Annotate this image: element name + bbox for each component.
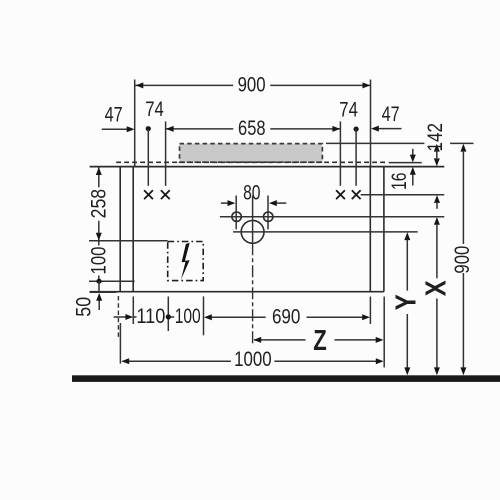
countertop left edge projection (dashed) (117, 296, 119, 338)
extension line box bottom (left) (89, 280, 135, 282)
dim 47 left line (102, 128, 127, 130)
dim Z arrow left (253, 337, 261, 343)
svg-text:900: 900 (238, 74, 266, 97)
dim 47 right line (374, 128, 402, 130)
left leg inner projection (132, 297, 134, 325)
svg-text:658: 658 (238, 117, 266, 140)
svg-text:74: 74 (145, 98, 164, 121)
svg-text:690: 690 (272, 306, 301, 329)
left leg outer edge (119, 167, 121, 292)
extension line console bottom (left) (90, 291, 117, 293)
drain axis line (233, 231, 418, 233)
dim 80 arrow left (228, 200, 236, 206)
console bottom edge (90, 291, 384, 293)
dim 258 arrow bottom (96, 233, 102, 241)
svg-text:16: 16 (388, 173, 411, 191)
dim 50 arrow (96, 293, 102, 301)
dim 74 right dot (354, 127, 359, 132)
left leg inner edge (132, 167, 134, 292)
svg-text:74: 74 (339, 99, 358, 122)
dim 142 arrows (434, 144, 440, 152)
right leg inner edge (369, 167, 371, 292)
dim 80 line left (221, 202, 232, 204)
right leg inner projection (369, 297, 371, 325)
screw level pointer arrow (434, 195, 440, 203)
svg-text:100: 100 (87, 247, 110, 275)
svg-text:1000: 1000 (234, 348, 272, 371)
right outer projection (383, 297, 385, 368)
dim 690 line (211, 316, 266, 318)
dim 74 left dot (146, 126, 151, 131)
dim 658 extension line left (165, 121, 167, 185)
dim 1000 arrow left (121, 358, 129, 364)
screw mark x2 (161, 190, 170, 199)
dim 658 arrow right (332, 126, 340, 132)
dim 50 line (98, 281, 100, 292)
dim 47 left arrow (127, 126, 135, 132)
dim Z arrow right (376, 337, 384, 343)
dim X line (434, 217, 440, 225)
dim 1000 line (123, 360, 231, 362)
dim 658 arrow left (166, 126, 174, 132)
dim 110/100 dot (166, 314, 171, 319)
dim 900 arrow left (136, 82, 144, 88)
svg-text:50: 50 (72, 297, 95, 317)
dim 258 line (98, 167, 100, 187)
dim 80 extension line left (235, 196, 237, 230)
dim Y line (404, 232, 410, 240)
dim 80 line right (273, 202, 286, 204)
svg-text:258: 258 (87, 189, 110, 219)
dim 900 extension line left (134, 80, 136, 167)
right leg outer edge (383, 167, 385, 292)
svg-text:Y: Y (391, 294, 423, 310)
dim 100/50 dot (96, 279, 101, 284)
faucet hole right (264, 212, 273, 221)
svg-text:47: 47 (382, 103, 400, 126)
faucet hole axis line (220, 216, 444, 218)
dim 16 arrow bottom (410, 167, 416, 175)
dim 690 arrow right (362, 314, 370, 320)
countertop dashed line (116, 161, 388, 163)
extension line box top (left) (89, 240, 168, 242)
dim Z line (254, 339, 305, 341)
electrical box (dash-dot) (168, 242, 204, 281)
dim 900 extension line right (370, 80, 372, 167)
dim 74 right leader line (355, 129, 357, 186)
dim 1000 extension left (119, 323, 121, 364)
rail top extension line (326, 142, 424, 144)
screw mark x4 (352, 190, 361, 199)
wall mounting rail (gray, dashed outline) (180, 144, 323, 163)
svg-text:900: 900 (451, 246, 474, 274)
dim 110 outside arrow (114, 316, 130, 318)
screw mark x3 (336, 190, 345, 199)
dim 16 arrow top (412, 149, 414, 156)
console top edge (90, 166, 445, 168)
dim 900 line (136, 84, 234, 86)
svg-text:X: X (421, 280, 453, 297)
dim 74 left leader line (147, 129, 149, 186)
faucet hole left (232, 212, 241, 221)
box left projection (167, 297, 169, 332)
svg-text:100: 100 (175, 305, 201, 328)
dim 100 line (98, 241, 100, 246)
drain vertical centerline (252, 196, 254, 244)
dim 658 line (166, 128, 234, 130)
dim 900v line (460, 144, 466, 152)
dim 80 arrow right (269, 200, 277, 206)
chain line bits (133, 316, 136, 318)
dim 690 arrow left (204, 314, 212, 320)
dim 900 arrow right (363, 82, 371, 88)
dim 16 extension stub (389, 162, 422, 164)
svg-text:142: 142 (424, 123, 447, 152)
svg-text:Z: Z (313, 325, 327, 357)
dim 658 extension line right (339, 121, 341, 185)
dim 47 right arrow (371, 126, 379, 132)
drain hole (241, 221, 264, 244)
dim 1000 arrow right (376, 358, 384, 364)
dim 80 extension line right (267, 196, 269, 230)
svg-text:110: 110 (136, 305, 165, 328)
floor line (72, 375, 500, 382)
screw mark x1 (144, 190, 153, 199)
dim 258 arrow top (96, 167, 102, 175)
svg-text:47: 47 (105, 104, 123, 127)
svg-text:80: 80 (243, 182, 260, 205)
box right projection (203, 296, 205, 335)
lightning bolt symbol (181, 243, 190, 280)
screw level line (to X dim) (361, 194, 445, 196)
